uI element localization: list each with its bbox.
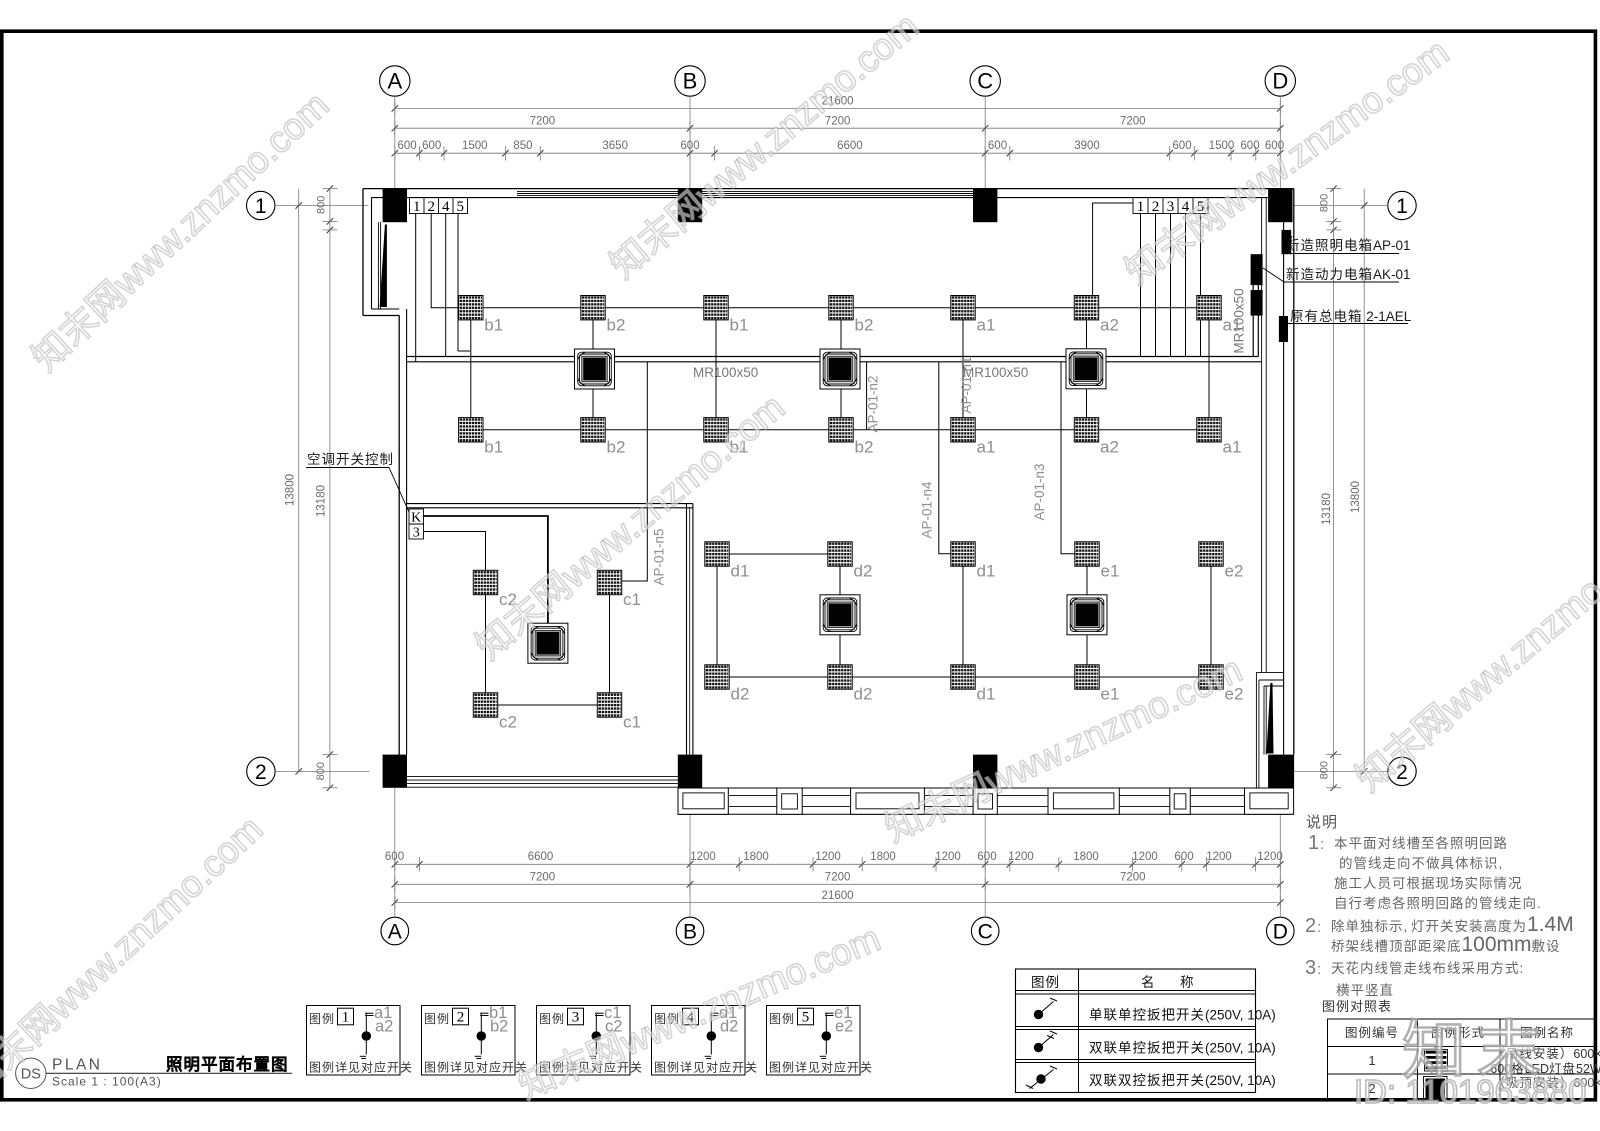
wall partition horizontal left room <box>407 503 693 505</box>
fixture a1 row2 <box>1197 418 1221 442</box>
svg-text:a1: a1 <box>977 438 996 457</box>
svg-text:1200: 1200 <box>1257 851 1283 863</box>
svg-text:b1: b1 <box>484 316 503 335</box>
dim row 21600 top <box>395 107 1281 109</box>
svg-text:3900: 3900 <box>1074 140 1100 152</box>
grid bubble 1 left <box>247 191 275 219</box>
svg-text:800: 800 <box>1318 194 1330 212</box>
door frame in notch <box>377 222 379 309</box>
svg-text:7200: 7200 <box>530 115 556 127</box>
svg-text:原有总电箱 2-1AEL: 原有总电箱 2-1AEL <box>1290 309 1412 324</box>
svg-text:b2: b2 <box>855 438 874 457</box>
svg-text:b1: b1 <box>730 316 749 335</box>
legend box circuit 5 <box>767 1006 861 1076</box>
svg-text:d2: d2 <box>731 685 750 704</box>
svg-text:d1: d1 <box>977 685 996 704</box>
wall top outer <box>363 188 1294 190</box>
grid bubble 2 left <box>247 757 275 785</box>
fixture a2 row2 <box>1074 418 1098 442</box>
grid bubble A bottom <box>381 917 409 945</box>
svg-text:3650: 3650 <box>602 140 628 152</box>
fixture e1 row4 <box>1075 665 1099 689</box>
svg-text:的管线走向不做具体标识,: 的管线走向不做具体标识, <box>1339 856 1503 871</box>
fixture a1 row2 <box>951 418 975 442</box>
fixture b2 row2 <box>581 418 605 442</box>
svg-text:1200: 1200 <box>1132 851 1158 863</box>
LED panel P2 <box>820 349 860 389</box>
svg-text:自行考虑各照明回路的管线走向.: 自行考虑各照明回路的管线走向. <box>1334 896 1542 911</box>
svg-text:4: 4 <box>687 1010 695 1026</box>
wire c2 vertical <box>485 595 487 693</box>
svg-text:图例详见对应开关: 图例详见对应开关 <box>654 1060 758 1075</box>
column B1 <box>678 189 702 222</box>
wire verticals lower zone <box>716 566 718 665</box>
svg-text:A: A <box>388 921 402 944</box>
switch symbol single-gang one-way <box>1034 1010 1042 1018</box>
fixture e2 row3 <box>1199 542 1223 566</box>
svg-text:5: 5 <box>802 1010 810 1026</box>
wire K to LED left room <box>424 516 548 623</box>
svg-text:单联单控扳把开关(250V, 10A): 单联单控扳把开关(250V, 10A) <box>1089 1008 1276 1023</box>
wire c2-c1 bottom <box>498 704 598 706</box>
wire row2 b-a fixtures <box>459 429 1197 431</box>
svg-text:AP-01-n4: AP-01-n4 <box>920 481 935 539</box>
svg-text:b2: b2 <box>607 316 626 335</box>
svg-text::: : <box>1317 961 1321 978</box>
svg-text:1: 1 <box>342 1010 350 1026</box>
svg-text:3: 3 <box>1167 199 1175 215</box>
svg-text:d2: d2 <box>854 685 873 704</box>
dim row subdivisions top <box>395 152 1281 154</box>
svg-text:图例: 图例 <box>654 1012 680 1026</box>
svg-text:600: 600 <box>1240 140 1259 152</box>
svg-text:c2: c2 <box>499 713 517 732</box>
grid line A top <box>394 96 396 188</box>
wire verticals row1-row2 <box>470 320 472 418</box>
switch legend table <box>1016 969 1256 1093</box>
legend box circuit 4 <box>652 1006 746 1076</box>
svg-text::: : <box>1317 919 1321 936</box>
svg-text:7200: 7200 <box>825 871 851 883</box>
switch group boxes 1 2 4 5 left <box>410 198 468 214</box>
grid bubble B bottom <box>676 917 704 945</box>
svg-text:600: 600 <box>385 851 404 863</box>
window W6 small <box>1170 788 1191 814</box>
fixture d1 row3 <box>951 542 975 566</box>
svg-text:a2: a2 <box>1100 438 1119 457</box>
svg-text:600: 600 <box>398 140 417 152</box>
fixture b1 row1 <box>459 296 483 320</box>
grid bubble 2 right <box>1388 757 1416 785</box>
svg-text:5: 5 <box>1197 199 1205 215</box>
svg-text:图例: 图例 <box>309 1012 335 1026</box>
svg-text:图例详见对应开关: 图例详见对应开关 <box>769 1060 873 1075</box>
svg-text:D: D <box>1272 69 1288 94</box>
svg-text:2: 2 <box>1152 199 1160 215</box>
svg-text:e2: e2 <box>835 1018 853 1036</box>
svg-text:AP-01-n3: AP-01-n3 <box>1032 463 1047 520</box>
svg-text:e2: e2 <box>1225 562 1244 581</box>
svg-text:图例详见对应开关: 图例详见对应开关 <box>309 1060 413 1075</box>
grid line D bottom <box>1279 788 1281 917</box>
svg-text:600: 600 <box>680 140 699 152</box>
wall right pair <box>1283 198 1285 755</box>
panel AP-01 new lighting box <box>1282 230 1292 254</box>
wire row3 d1-d2 <box>729 553 828 555</box>
switch symbol two-gang one-way <box>1034 1043 1042 1051</box>
svg-text:称: 称 <box>1180 975 1195 990</box>
svg-text:1800: 1800 <box>743 851 769 863</box>
svg-text:1: 1 <box>255 195 267 218</box>
table symbol dark square luminaire <box>1426 1079 1446 1099</box>
svg-text:e2: e2 <box>1225 685 1244 704</box>
window W2 small <box>777 788 802 814</box>
door leaf wedge left <box>380 225 387 308</box>
wall left notch <box>362 189 364 316</box>
svg-text:5: 5 <box>456 199 464 215</box>
svg-text:a1: a1 <box>1223 438 1242 457</box>
svg-text:13800: 13800 <box>1350 481 1362 513</box>
svg-text:图例: 图例 <box>424 1012 450 1026</box>
leader line to K box <box>389 468 409 513</box>
column C1 <box>973 189 997 222</box>
watermarks <box>0 46 372 413</box>
switch box K-3 air conditioning <box>409 509 424 524</box>
grid line B top <box>689 96 691 188</box>
svg-text:本平面对线槽至各照明回路: 本平面对线槽至各照明回路 <box>1334 836 1508 851</box>
svg-text:c1: c1 <box>623 713 641 732</box>
column D1 <box>1268 189 1292 222</box>
svg-text:a1: a1 <box>1223 316 1242 335</box>
column C2 <box>973 755 997 788</box>
svg-text:2: 2 <box>427 199 435 215</box>
grid bubble D top <box>1265 66 1295 96</box>
svg-text:C: C <box>977 69 993 94</box>
svg-text:1: 1 <box>1137 199 1145 215</box>
grid line 1 right <box>1294 205 1388 207</box>
svg-text:双联单控扳把开关(250V, 10A): 双联单控扳把开关(250V, 10A) <box>1089 1041 1276 1056</box>
svg-text:3: 3 <box>1305 957 1316 979</box>
svg-text:b2: b2 <box>490 1018 508 1036</box>
svg-text:1500: 1500 <box>1209 140 1235 152</box>
legend box circuit 2 <box>422 1006 516 1076</box>
svg-text:AP-01-n1: AP-01-n1 <box>959 356 974 413</box>
svg-text:1200: 1200 <box>690 851 716 863</box>
svg-text:A: A <box>387 69 402 94</box>
fixture c2 left room <box>473 570 497 594</box>
fixture a1 row1 <box>951 296 975 320</box>
wire circuit 5 drop <box>457 214 459 352</box>
svg-text:1: 1 <box>413 199 421 215</box>
svg-text:3: 3 <box>572 1010 580 1026</box>
grid bubble A top <box>380 66 410 96</box>
wires circuits right drop 1-5 <box>1140 214 1142 357</box>
LED panel P5 <box>1067 595 1107 635</box>
svg-text:7200: 7200 <box>1120 871 1146 883</box>
grid line C top <box>984 96 986 188</box>
svg-text:7200: 7200 <box>825 115 851 127</box>
grid line 1 left <box>275 205 369 207</box>
wire AP-01-n2 drop <box>866 362 868 430</box>
svg-text:4: 4 <box>1182 199 1190 215</box>
svg-text:21600: 21600 <box>822 890 854 902</box>
window W4 small <box>973 788 997 814</box>
wire row4 lower zone <box>729 676 1199 678</box>
svg-text:1200: 1200 <box>815 851 841 863</box>
door leaf wedge shaft <box>1266 683 1273 754</box>
wall bottom band A-B <box>407 776 678 778</box>
LED panel P1 <box>575 349 615 389</box>
svg-text:13800: 13800 <box>285 474 297 506</box>
window band inner lines <box>728 795 1244 797</box>
svg-text:AP-01-n2: AP-01-n2 <box>866 375 881 432</box>
svg-text:13180: 13180 <box>315 485 327 517</box>
svg-text:图例: 图例 <box>539 1012 565 1026</box>
svg-text:6600: 6600 <box>528 851 554 863</box>
dim row 7200 bottom <box>395 883 1281 885</box>
legend box circuit 1 <box>307 1006 401 1076</box>
fixture b1 row1 <box>704 296 728 320</box>
panel existing main box 2-1AEL <box>1279 316 1288 342</box>
svg-text:1200: 1200 <box>1206 851 1232 863</box>
svg-text:K: K <box>411 511 421 526</box>
svg-text:AP-01-n5: AP-01-n5 <box>652 528 667 585</box>
svg-text:4: 4 <box>442 199 450 215</box>
svg-text:600: 600 <box>1172 140 1191 152</box>
svg-text:850: 850 <box>513 140 532 152</box>
wall partition vertical left room <box>686 504 688 755</box>
grid bubble C bottom <box>971 917 999 945</box>
svg-text:图例对照表: 图例对照表 <box>1322 999 1392 1014</box>
fixture d1 row3 <box>705 542 729 566</box>
svg-text:d1: d1 <box>977 562 996 581</box>
grid bubble C top <box>970 66 1000 96</box>
column A1 <box>383 189 407 222</box>
svg-text:13180: 13180 <box>1321 493 1333 525</box>
svg-text:天花内线管走线布线采用方式:: 天花内线管走线布线采用方式: <box>1331 961 1524 976</box>
svg-text:图例: 图例 <box>769 1012 795 1026</box>
window W5 large <box>1048 788 1119 814</box>
column A2 <box>383 755 407 788</box>
fixture d2 row4 <box>828 665 852 689</box>
wire 3 to c2 <box>424 532 486 571</box>
dim row subdivisions bottom <box>395 863 1281 865</box>
svg-text::: : <box>1320 836 1324 853</box>
svg-text:d1: d1 <box>731 562 750 581</box>
svg-text:新造动力电箱AK-01: 新造动力电箱AK-01 <box>1286 267 1411 282</box>
svg-text:2: 2 <box>1396 761 1408 784</box>
dim 13800 left <box>298 189 300 772</box>
svg-text:Scale 1 : 100(A3): Scale 1 : 100(A3) <box>52 1075 162 1089</box>
cable tray riser right <box>1252 254 1254 356</box>
table symbol hatched luminaire <box>1425 1050 1448 1072</box>
svg-text:1: 1 <box>1308 832 1319 854</box>
svg-text:c2: c2 <box>605 1018 622 1036</box>
svg-text:D: D <box>1273 921 1288 944</box>
legend box circuit 3 <box>537 1006 631 1076</box>
svg-text:b2: b2 <box>855 316 874 335</box>
LED panel P4 <box>820 595 860 635</box>
fixture d2 row3 <box>828 542 852 566</box>
svg-text:b1: b1 <box>484 438 503 457</box>
svg-text:c1: c1 <box>623 590 641 609</box>
svg-text:e1: e1 <box>1101 685 1120 704</box>
svg-text:a2: a2 <box>1100 316 1119 335</box>
svg-text:1800: 1800 <box>1073 851 1099 863</box>
svg-text:C: C <box>978 921 993 944</box>
fixture e1 row3 <box>1075 542 1099 566</box>
svg-text:2: 2 <box>255 761 267 784</box>
svg-text:d2: d2 <box>720 1018 738 1036</box>
wire AP-01-n4 drop <box>939 362 951 554</box>
svg-text:800: 800 <box>315 196 327 214</box>
grid bubble B top <box>675 66 705 96</box>
svg-text:图例详见对应开关: 图例详见对应开关 <box>424 1060 528 1075</box>
LED panel P6 <box>528 623 568 663</box>
svg-text:双联双控扳把开关(250V, 10A): 双联双控扳把开关(250V, 10A) <box>1089 1073 1276 1088</box>
grid bubble 1 right <box>1388 191 1416 219</box>
fixture a1 row1 <box>1197 296 1221 320</box>
wire circuit 1 drop from box <box>415 214 417 362</box>
fixture a2 row1 <box>1074 296 1098 320</box>
window band bottom B-D outer <box>678 787 1294 789</box>
cable tray trunk MR100x50 horizontal <box>407 356 1258 358</box>
svg-text:a1: a1 <box>977 316 996 335</box>
svg-text:新造照明电箱AP-01: 新造照明电箱AP-01 <box>1286 238 1411 253</box>
dim 13180 left <box>329 189 331 788</box>
svg-text:B: B <box>683 921 697 944</box>
wall top inner <box>372 197 1284 199</box>
fixture d2 row4 <box>705 665 729 689</box>
grid line B bottom <box>689 788 691 917</box>
wire c1 vertical <box>609 595 611 693</box>
fixture b2 row2 <box>829 418 853 442</box>
svg-text:说明: 说明 <box>1306 814 1338 831</box>
wire AP-01-n5 drop <box>622 362 648 581</box>
svg-text:1500: 1500 <box>462 140 488 152</box>
window W3 large <box>851 788 925 814</box>
svg-text:e1: e1 <box>1101 562 1120 581</box>
grid bubble D bottom <box>1267 917 1295 945</box>
svg-text:PLAN: PLAN <box>52 1057 103 1074</box>
svg-text:施工人员可根据现场实际情况: 施工人员可根据现场实际情况 <box>1334 876 1523 891</box>
svg-text:3: 3 <box>413 526 420 541</box>
svg-text:图例详见对应开关: 图例详见对应开关 <box>539 1060 643 1075</box>
svg-text:d2: d2 <box>854 562 873 581</box>
svg-text:1800: 1800 <box>870 851 896 863</box>
panel AK-01 new power box <box>1251 254 1263 285</box>
column D2 <box>1268 755 1294 788</box>
fixture b2 row1 <box>829 296 853 320</box>
fixture b1 row2 <box>459 418 483 442</box>
svg-text:MR100x50: MR100x50 <box>693 365 758 380</box>
fixture b2 row1 <box>581 296 605 320</box>
svg-text:b2: b2 <box>607 438 626 457</box>
svg-text:a2: a2 <box>375 1018 393 1036</box>
svg-text:横平竖直: 横平竖直 <box>1336 983 1394 998</box>
shaft bottom right <box>1256 671 1283 673</box>
fixture c1 left room <box>597 570 621 594</box>
svg-text:600: 600 <box>422 140 441 152</box>
svg-text:图例: 图例 <box>1031 975 1060 990</box>
wire circuit 2 drop to b1 <box>431 214 458 308</box>
wire a2 to switch boxes <box>1093 203 1133 296</box>
fixture b1 row2 <box>704 418 728 442</box>
svg-text:DS: DS <box>21 1067 41 1083</box>
wire AP-01-n3 drop <box>1061 362 1075 554</box>
title block DS PLAN <box>16 1058 46 1088</box>
svg-text:800: 800 <box>315 762 327 780</box>
grid line 2 right <box>1294 770 1388 772</box>
svg-text:7200: 7200 <box>1120 115 1146 127</box>
svg-text:600: 600 <box>977 851 996 863</box>
fixture d1 row4 <box>951 665 975 689</box>
fixture c1 left room <box>597 693 621 717</box>
svg-text:名: 名 <box>1141 975 1156 990</box>
switch group boxes 1 2 3 4 5 right <box>1133 198 1208 214</box>
svg-text:600: 600 <box>1265 140 1284 152</box>
svg-text:600: 600 <box>1174 851 1193 863</box>
fixture e2 row4 <box>1199 665 1223 689</box>
svg-text:空调开关控制: 空调开关控制 <box>307 452 394 467</box>
window W1 large <box>678 788 728 814</box>
svg-text:b1: b1 <box>730 438 749 457</box>
svg-text:照明平面布置图: 照明平面布置图 <box>166 1055 289 1074</box>
svg-text:1200: 1200 <box>935 851 961 863</box>
wall right interior lines <box>1261 198 1263 673</box>
LED panel P3 <box>1066 349 1106 389</box>
switch symbol two-gang two-way <box>1037 1075 1045 1083</box>
grid line 2 left <box>275 770 369 772</box>
svg-text:800: 800 <box>1318 761 1330 779</box>
column B2 <box>678 755 702 788</box>
svg-text:B: B <box>683 69 698 94</box>
svg-text:6600: 6600 <box>837 140 863 152</box>
grid line C bottom <box>984 788 986 917</box>
grid line A bottom <box>394 788 396 917</box>
svg-text:7200: 7200 <box>530 871 556 883</box>
svg-text:600: 600 <box>988 140 1007 152</box>
svg-text:1: 1 <box>1368 1053 1375 1068</box>
svg-text:图例编号: 图例编号 <box>1345 1025 1399 1040</box>
dim row 21600 bottom <box>395 902 1281 904</box>
grid line D top <box>1279 96 1281 188</box>
fixture c2 left room <box>473 693 497 717</box>
wire row1 b-a fixtures <box>459 307 1197 309</box>
dim 13800 right <box>1363 189 1365 772</box>
svg-text:2: 2 <box>1305 915 1316 937</box>
svg-text:2: 2 <box>457 1010 465 1026</box>
window W7 large <box>1245 788 1294 814</box>
dim 13180 right <box>1333 189 1335 788</box>
svg-text:1: 1 <box>1396 195 1408 218</box>
svg-text:1200: 1200 <box>1008 851 1034 863</box>
wire circuit 4 drop <box>445 214 447 357</box>
dim row 7200 top <box>395 127 1281 129</box>
svg-text:21600: 21600 <box>822 96 854 108</box>
svg-text:c2: c2 <box>499 590 517 609</box>
cable tray along top wall <box>517 190 985 192</box>
wall left inner pair <box>398 316 400 755</box>
